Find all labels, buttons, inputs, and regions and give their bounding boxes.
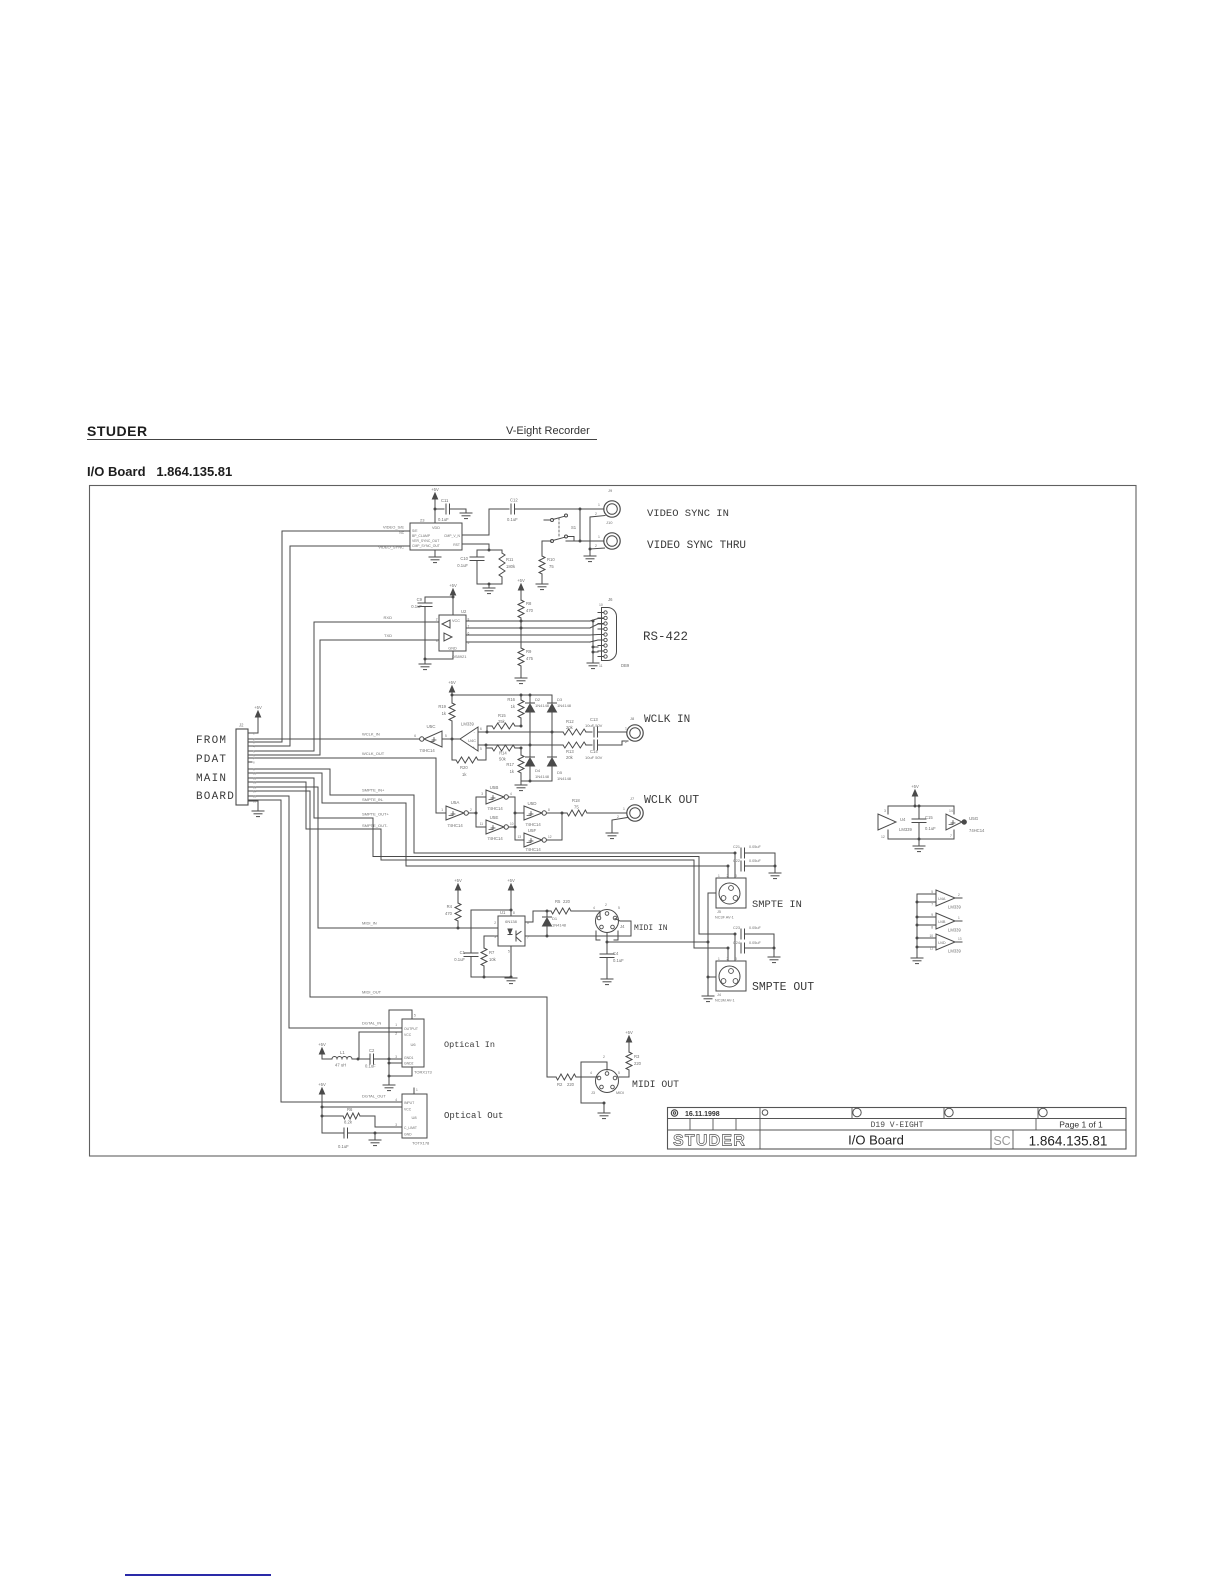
svg-text:I/O Board: I/O Board bbox=[848, 1133, 904, 1148]
power +5V (WCLK comparator) bbox=[448, 680, 456, 697]
inductor L1 bbox=[332, 1050, 360, 1068]
wire (U4C + input) bbox=[478, 744, 560, 747]
svg-text:MIDI: MIDI bbox=[616, 1091, 624, 1095]
svg-text:20k: 20k bbox=[566, 755, 574, 760]
ground (C4) bbox=[601, 979, 613, 985]
net DGTAL_OUT bbox=[362, 1094, 386, 1099]
svg-text:75: 75 bbox=[549, 564, 554, 569]
svg-text:Optical Out: Optical Out bbox=[444, 1111, 503, 1121]
svg-text:4: 4 bbox=[395, 1098, 397, 1102]
svg-text:7: 7 bbox=[931, 903, 933, 907]
label WCLK OUT bbox=[644, 794, 699, 807]
svg-text:+5V: +5V bbox=[507, 878, 515, 883]
wire (U4C - input) bbox=[478, 731, 489, 734]
svg-text:74HC14: 74HC14 bbox=[525, 847, 541, 852]
svg-text:13: 13 bbox=[958, 937, 962, 941]
svg-text:SMPTE_IN+: SMPTE_IN+ bbox=[362, 788, 385, 793]
svg-text:R10: R10 bbox=[547, 557, 555, 562]
svg-text:NC: NC bbox=[399, 531, 404, 535]
wire TXD bbox=[248, 640, 439, 755]
RS-422 transceiver U2 bbox=[436, 609, 470, 659]
resistor R13 bbox=[560, 742, 592, 760]
ground (C11) bbox=[460, 509, 472, 519]
svg-text:2: 2 bbox=[595, 512, 597, 516]
inverter U5C bbox=[414, 724, 447, 753]
wire (switch to J10) bbox=[568, 537, 575, 542]
wire DGTAL_OUT bbox=[248, 800, 402, 1102]
svg-text:74HC14: 74HC14 bbox=[447, 823, 463, 828]
svg-text:0.1uF: 0.1uF bbox=[338, 1144, 349, 1149]
svg-text:R13: R13 bbox=[566, 749, 574, 754]
title block page bbox=[1059, 1120, 1103, 1130]
label SMPTE OUT bbox=[752, 981, 814, 994]
svg-text:2: 2 bbox=[494, 921, 496, 925]
svg-text:220: 220 bbox=[567, 1082, 575, 1087]
svg-text:+5V: +5V bbox=[448, 680, 456, 685]
svg-text:1: 1 bbox=[623, 807, 625, 811]
title block date bbox=[671, 1110, 719, 1118]
wire (opto return) bbox=[525, 919, 631, 938]
resistor R16 bbox=[507, 695, 524, 726]
net RXD bbox=[384, 615, 393, 620]
label FROM PDAT MAIN BOARD bbox=[196, 735, 235, 803]
net VIDEO_S/E bbox=[383, 525, 405, 536]
svg-text:13: 13 bbox=[517, 835, 521, 839]
svg-text:2: 2 bbox=[436, 618, 438, 622]
resistor R12 bbox=[560, 719, 592, 735]
svg-text:+5V: +5V bbox=[911, 784, 919, 789]
svg-text:C12: C12 bbox=[510, 498, 518, 503]
capacitor C10 bbox=[457, 550, 484, 584]
svg-text:MIDI_IN: MIDI_IN bbox=[362, 921, 377, 926]
power +5V (U2) bbox=[449, 583, 457, 615]
wire (to BNC J8 pin2) bbox=[622, 741, 628, 745]
svg-text:DGTAL_IN: DGTAL_IN bbox=[362, 1021, 381, 1026]
svg-text:3: 3 bbox=[735, 957, 737, 961]
power +5V (L1) bbox=[318, 1042, 332, 1059]
ground (XLR shield) bbox=[702, 996, 714, 1002]
wire (BNC shields) bbox=[589, 516, 606, 557]
resistor R20 bbox=[452, 739, 486, 777]
wire SMPTE_IN- bbox=[248, 773, 730, 868]
svg-text:74HC14: 74HC14 bbox=[487, 806, 503, 811]
svg-text:0.1uF: 0.1uF bbox=[925, 826, 936, 831]
ground (opto) bbox=[505, 978, 517, 984]
capacitor C11 bbox=[438, 498, 466, 522]
svg-text:0.05uF: 0.05uF bbox=[749, 859, 762, 863]
svg-text:7: 7 bbox=[950, 834, 952, 838]
svg-text:2: 2 bbox=[595, 544, 597, 548]
svg-text:VIDEO SYNC IN: VIDEO SYNC IN bbox=[647, 508, 729, 520]
capacitor C3 bbox=[322, 1128, 402, 1149]
svg-text:J4: J4 bbox=[620, 924, 625, 929]
wire bbox=[434, 508, 445, 511]
svg-text:220: 220 bbox=[563, 899, 571, 904]
svg-text:0.1uF: 0.1uF bbox=[613, 958, 624, 963]
svg-text:SC: SC bbox=[993, 1134, 1010, 1148]
svg-text:1: 1 bbox=[598, 503, 600, 507]
switch S1 bbox=[544, 514, 577, 543]
svg-text:BP_CLAMP: BP_CLAMP bbox=[412, 534, 431, 538]
ground (spare bus) bbox=[911, 958, 923, 964]
svg-text:C21: C21 bbox=[733, 845, 740, 849]
svg-text:1k: 1k bbox=[462, 772, 467, 777]
svg-text:5: 5 bbox=[508, 950, 510, 954]
svg-text:0.1uF: 0.1uF bbox=[365, 1064, 376, 1069]
svg-text:U5B: U5B bbox=[490, 785, 499, 790]
power +5V (TOTX) bbox=[318, 1082, 326, 1109]
svg-text:6: 6 bbox=[414, 734, 416, 738]
svg-text:C23: C23 bbox=[733, 926, 740, 930]
label RS-422 bbox=[643, 630, 688, 644]
svg-text:R4: R4 bbox=[447, 904, 453, 909]
wire (TORX top loop) bbox=[389, 1010, 412, 1059]
svg-text:12: 12 bbox=[548, 835, 552, 839]
wire VIDEO_S/E bbox=[248, 531, 410, 742]
svg-text:NC3M AV-1: NC3M AV-1 bbox=[715, 999, 735, 1003]
svg-text:8: 8 bbox=[931, 926, 933, 930]
svg-text:3: 3 bbox=[494, 935, 496, 939]
svg-text:4: 4 bbox=[593, 906, 595, 910]
svg-text:25k: 25k bbox=[498, 719, 506, 724]
svg-text:0.1uF: 0.1uF bbox=[457, 563, 468, 568]
wire (opto gnd rail) bbox=[471, 946, 513, 979]
svg-text:74HC14: 74HC14 bbox=[487, 836, 503, 841]
svg-text:SMPTE_OUT+: SMPTE_OUT+ bbox=[362, 812, 389, 817]
resistor R15 bbox=[487, 713, 523, 732]
svg-text:0.1uF: 0.1uF bbox=[454, 957, 465, 962]
wire (opto output) bbox=[525, 910, 549, 923]
svg-text:+5V: +5V bbox=[431, 487, 439, 492]
svg-text:STUDER: STUDER bbox=[673, 1133, 746, 1150]
wire RXD bbox=[248, 622, 439, 751]
capacitor C13 bbox=[585, 717, 626, 737]
wire bbox=[434, 509, 436, 523]
wire (VCC to filter) bbox=[359, 1032, 402, 1059]
svg-text:-: - bbox=[474, 730, 476, 735]
svg-text:C4: C4 bbox=[613, 951, 619, 956]
svg-text:C9: C9 bbox=[417, 597, 423, 602]
svg-text:14: 14 bbox=[949, 809, 953, 813]
svg-text:2: 2 bbox=[617, 815, 619, 819]
net SMPTE_IN- bbox=[362, 797, 384, 802]
ground (R10) bbox=[536, 584, 548, 590]
label WCLK IN bbox=[644, 714, 690, 726]
svg-text:R19: R19 bbox=[438, 704, 446, 709]
svg-text:D3: D3 bbox=[557, 697, 563, 702]
svg-text:1: 1 bbox=[598, 535, 600, 539]
resistor R7 bbox=[481, 936, 498, 977]
svg-text:RST: RST bbox=[453, 543, 460, 547]
inverter U5F bbox=[517, 828, 551, 852]
wire RST network bbox=[462, 544, 502, 552]
label MIDI OUT bbox=[632, 1079, 679, 1090]
svg-text:R17: R17 bbox=[506, 762, 514, 767]
ground (U3) bbox=[429, 550, 441, 563]
capacitor C23 bbox=[733, 926, 774, 948]
svg-text:1: 1 bbox=[718, 874, 720, 878]
svg-text:1N4148: 1N4148 bbox=[535, 703, 550, 708]
capacitor C4 bbox=[600, 942, 624, 979]
wire (pullup rail) bbox=[452, 694, 552, 697]
svg-text:U4C: U4C bbox=[468, 738, 476, 743]
wire (J7 shield) bbox=[612, 818, 628, 834]
svg-text:J5: J5 bbox=[717, 910, 721, 914]
svg-text:FROM: FROM bbox=[196, 735, 227, 747]
ground (C15) bbox=[913, 839, 925, 852]
wire bbox=[425, 596, 453, 598]
connector J5b (XLR SMPTE OUT) bbox=[708, 934, 746, 1003]
net SMPTE_OUT- bbox=[362, 823, 388, 828]
svg-text:14: 14 bbox=[253, 789, 257, 793]
svg-text:R14: R14 bbox=[499, 751, 507, 756]
svg-text:MIDI OUT: MIDI OUT bbox=[632, 1079, 679, 1090]
svg-text:WCLK OUT: WCLK OUT bbox=[644, 794, 699, 807]
svg-text:R16: R16 bbox=[507, 697, 515, 702]
svg-text:S1: S1 bbox=[571, 525, 577, 530]
svg-text:12: 12 bbox=[253, 780, 257, 784]
video sync IC U3 bbox=[410, 518, 462, 551]
svg-text:2: 2 bbox=[603, 1055, 605, 1059]
svg-text:74HC14: 74HC14 bbox=[969, 828, 985, 833]
svg-text:VCC: VCC bbox=[404, 1033, 412, 1037]
svg-text:VIDEO_S/E: VIDEO_S/E bbox=[383, 525, 404, 530]
svg-text:50k: 50k bbox=[499, 757, 507, 762]
optical transmitter U8 (TOTX178) bbox=[395, 1088, 430, 1146]
diode D4 bbox=[526, 745, 550, 781]
svg-text:J9: J9 bbox=[608, 488, 613, 493]
label MIDI IN bbox=[634, 924, 668, 933]
net MIDI_IN bbox=[362, 921, 377, 926]
svg-text:C_LIMIT: C_LIMIT bbox=[404, 1126, 417, 1130]
svg-text:PDAT: PDAT bbox=[196, 754, 227, 766]
svg-text:LM339: LM339 bbox=[899, 827, 912, 832]
svg-text:LM339: LM339 bbox=[948, 949, 961, 954]
wire VIDEO_SYNC bbox=[248, 546, 410, 746]
wire SMPTE_OUT- bbox=[248, 782, 730, 950]
svg-text:SMPTE OUT: SMPTE OUT bbox=[752, 981, 814, 994]
svg-text:+5V: +5V bbox=[254, 705, 262, 710]
capacitor C9 bbox=[411, 597, 432, 659]
svg-text:0.1uF: 0.1uF bbox=[411, 604, 422, 609]
node (video out) bbox=[579, 508, 605, 511]
svg-text:10: 10 bbox=[510, 822, 514, 826]
svg-text:R5: R5 bbox=[555, 899, 561, 904]
wire RI+ bbox=[466, 619, 603, 623]
resistor R4 bbox=[445, 903, 461, 928]
svg-text:+5V: +5V bbox=[625, 1030, 633, 1035]
wire (XLR IN shield) bbox=[707, 893, 717, 995]
svg-text:475: 475 bbox=[526, 656, 534, 661]
svg-text:1: 1 bbox=[718, 957, 720, 961]
svg-text:J2: J2 bbox=[239, 723, 244, 728]
ground (C9) bbox=[419, 664, 431, 670]
svg-text:15: 15 bbox=[253, 794, 257, 798]
capacitor C2 bbox=[358, 1048, 402, 1069]
resistor R11 bbox=[499, 550, 516, 584]
ground (J7) bbox=[606, 833, 618, 839]
ground (SMPTE OUT) bbox=[768, 957, 780, 963]
svg-text:0.1uF: 0.1uF bbox=[438, 517, 449, 522]
inverter U5D bbox=[524, 801, 550, 827]
svg-text:D2: D2 bbox=[535, 697, 541, 702]
capacitor C22 bbox=[733, 859, 777, 873]
capacitor C15 bbox=[912, 806, 936, 839]
opto-isolator U1 (6N138) bbox=[494, 910, 529, 954]
diode D2 bbox=[526, 695, 550, 745]
svg-text:5: 5 bbox=[480, 747, 482, 751]
svg-text:U8: U8 bbox=[411, 1115, 417, 1120]
label VIDEO SYNC IN bbox=[647, 508, 729, 520]
svg-text:4: 4 bbox=[590, 1071, 592, 1075]
diode D3 bbox=[548, 695, 572, 757]
svg-text:0.05uF: 0.05uF bbox=[749, 926, 762, 930]
svg-text:CMP_SYNC_OUT: CMP_SYNC_OUT bbox=[412, 544, 440, 548]
svg-text:11: 11 bbox=[930, 947, 934, 951]
svg-text:SMPTE_IN-: SMPTE_IN- bbox=[362, 797, 384, 802]
power +5V (R3) bbox=[625, 1030, 633, 1052]
svg-text:9: 9 bbox=[931, 913, 933, 917]
inverter U5B bbox=[481, 785, 512, 811]
svg-text:10: 10 bbox=[599, 603, 603, 607]
svg-text:VCC: VCC bbox=[452, 619, 460, 623]
title block project bbox=[871, 1121, 924, 1130]
svg-text:U5F: U5F bbox=[528, 828, 537, 833]
svg-text:SMPTE_OUT-: SMPTE_OUT- bbox=[362, 823, 388, 828]
svg-text:J6: J6 bbox=[608, 597, 613, 602]
svg-text:2: 2 bbox=[958, 893, 960, 897]
capacitor C12 bbox=[507, 498, 580, 523]
svg-text:TOTX178: TOTX178 bbox=[412, 1141, 430, 1146]
svg-text:U5A: U5A bbox=[451, 800, 460, 805]
svg-text:C2: C2 bbox=[369, 1048, 375, 1053]
svg-text:8: 8 bbox=[548, 808, 550, 812]
svg-text:C14: C14 bbox=[590, 749, 598, 754]
wire DO+ bbox=[466, 634, 603, 637]
net WCLK_IN bbox=[362, 732, 380, 737]
net TXD bbox=[384, 633, 392, 638]
svg-text:DB9: DB9 bbox=[621, 663, 630, 668]
svg-text:10: 10 bbox=[253, 771, 257, 775]
svg-text:DS8921: DS8921 bbox=[452, 654, 467, 659]
comparator U4C bbox=[460, 722, 482, 752]
svg-text:470: 470 bbox=[445, 911, 453, 916]
svg-text:2: 2 bbox=[470, 808, 472, 812]
svg-text:U5C: U5C bbox=[426, 724, 436, 729]
ground (J3) bbox=[598, 1113, 610, 1119]
svg-text:NC3F AV-1: NC3F AV-1 bbox=[715, 916, 734, 920]
ground (SMPTE IN) bbox=[769, 873, 781, 879]
svg-text:1: 1 bbox=[958, 916, 960, 920]
connector J3 (DIN MIDI OUT) bbox=[581, 1055, 624, 1105]
connector J2 bbox=[236, 723, 257, 806]
title block SC bbox=[993, 1134, 1010, 1148]
svg-text:+5V: +5V bbox=[517, 578, 525, 583]
power +5V (R8) bbox=[517, 578, 525, 600]
ground (R9) bbox=[515, 678, 527, 684]
ground (BNC) bbox=[584, 556, 596, 562]
net WCLK_OUT bbox=[362, 751, 385, 756]
svg-text:1: 1 bbox=[395, 1023, 397, 1027]
capacitor C1 bbox=[454, 910, 478, 977]
svg-text:U5G: U5G bbox=[969, 816, 979, 821]
svg-text:U4: U4 bbox=[900, 817, 906, 822]
ground (J6) bbox=[587, 663, 599, 669]
svg-text:WCLK_IN: WCLK_IN bbox=[362, 732, 380, 737]
svg-text:470: 470 bbox=[526, 608, 534, 613]
svg-text:R15: R15 bbox=[498, 713, 506, 718]
svg-text:1: 1 bbox=[625, 727, 627, 731]
svg-text:U4A: U4A bbox=[938, 897, 946, 901]
op-amp U4 power triangle bbox=[878, 806, 912, 839]
label VIDEO SYNC THRU bbox=[647, 540, 746, 552]
resistor R8 bbox=[518, 600, 534, 622]
svg-text:5: 5 bbox=[618, 1071, 620, 1075]
connector J9 (BNC) bbox=[595, 488, 620, 517]
svg-text:LM339: LM339 bbox=[948, 905, 961, 910]
svg-text:16.11.1998: 16.11.1998 bbox=[685, 1111, 720, 1118]
capacitor C21 bbox=[733, 845, 775, 866]
wire (TOTX VCC) bbox=[321, 1107, 403, 1133]
svg-text:L1: L1 bbox=[340, 1050, 345, 1055]
svg-text:6: 6 bbox=[480, 727, 482, 731]
svg-text:VIDEO SYNC THRU: VIDEO SYNC THRU bbox=[647, 540, 746, 552]
svg-text:R3: R3 bbox=[634, 1054, 640, 1059]
resistor R10 bbox=[539, 541, 555, 584]
STUDER logo (title block) bbox=[673, 1133, 746, 1150]
svg-text:WCLK_OUT: WCLK_OUT bbox=[362, 751, 385, 756]
label Optical Out bbox=[444, 1111, 503, 1121]
connector J4 (DIN MIDI IN) bbox=[593, 903, 625, 944]
resistor R18 bbox=[567, 798, 626, 816]
svg-text:C24: C24 bbox=[733, 941, 740, 945]
svg-text:5: 5 bbox=[931, 890, 933, 894]
wire (GND2) bbox=[388, 1059, 403, 1076]
svg-text:MIDI IN: MIDI IN bbox=[634, 924, 668, 933]
svg-text:U5D: U5D bbox=[527, 801, 537, 806]
svg-text:C13: C13 bbox=[590, 717, 598, 722]
svg-text:J10: J10 bbox=[606, 520, 613, 525]
ground (WCLK network) bbox=[515, 785, 527, 791]
wire WCLK_OUT bbox=[248, 758, 446, 813]
svg-text:+5V: +5V bbox=[318, 1082, 326, 1087]
power +5V (video IC) bbox=[431, 487, 439, 509]
svg-text:8.2k: 8.2k bbox=[344, 1120, 353, 1125]
wire (TORX bottom) bbox=[388, 1067, 413, 1085]
svg-text:3: 3 bbox=[884, 809, 886, 813]
wire DGTAL_IN bbox=[248, 796, 402, 1028]
optical receiver U6 (TORX173) bbox=[395, 1014, 432, 1075]
wire SMPTE_OUT+ bbox=[248, 778, 737, 936]
svg-text:8: 8 bbox=[513, 911, 515, 915]
ground (J2) bbox=[252, 811, 264, 817]
svg-text:+5V: +5V bbox=[318, 1042, 326, 1047]
svg-text:TXD: TXD bbox=[384, 633, 392, 638]
diode D1 bbox=[543, 911, 567, 936]
svg-text:3: 3 bbox=[395, 1123, 397, 1127]
svg-text:R12: R12 bbox=[566, 719, 574, 724]
svg-text:R11: R11 bbox=[506, 557, 514, 562]
svg-text:SMPTE IN: SMPTE IN bbox=[752, 899, 802, 911]
svg-text:J3: J3 bbox=[591, 1091, 595, 1095]
wire (U5A out node) bbox=[469, 797, 487, 827]
svg-text:3: 3 bbox=[481, 792, 483, 796]
svg-text:1k: 1k bbox=[442, 711, 447, 716]
power +5V (opto) bbox=[507, 878, 515, 910]
resistor R17 bbox=[506, 748, 524, 781]
svg-text:8: 8 bbox=[253, 760, 255, 764]
svg-text:10: 10 bbox=[929, 934, 933, 938]
